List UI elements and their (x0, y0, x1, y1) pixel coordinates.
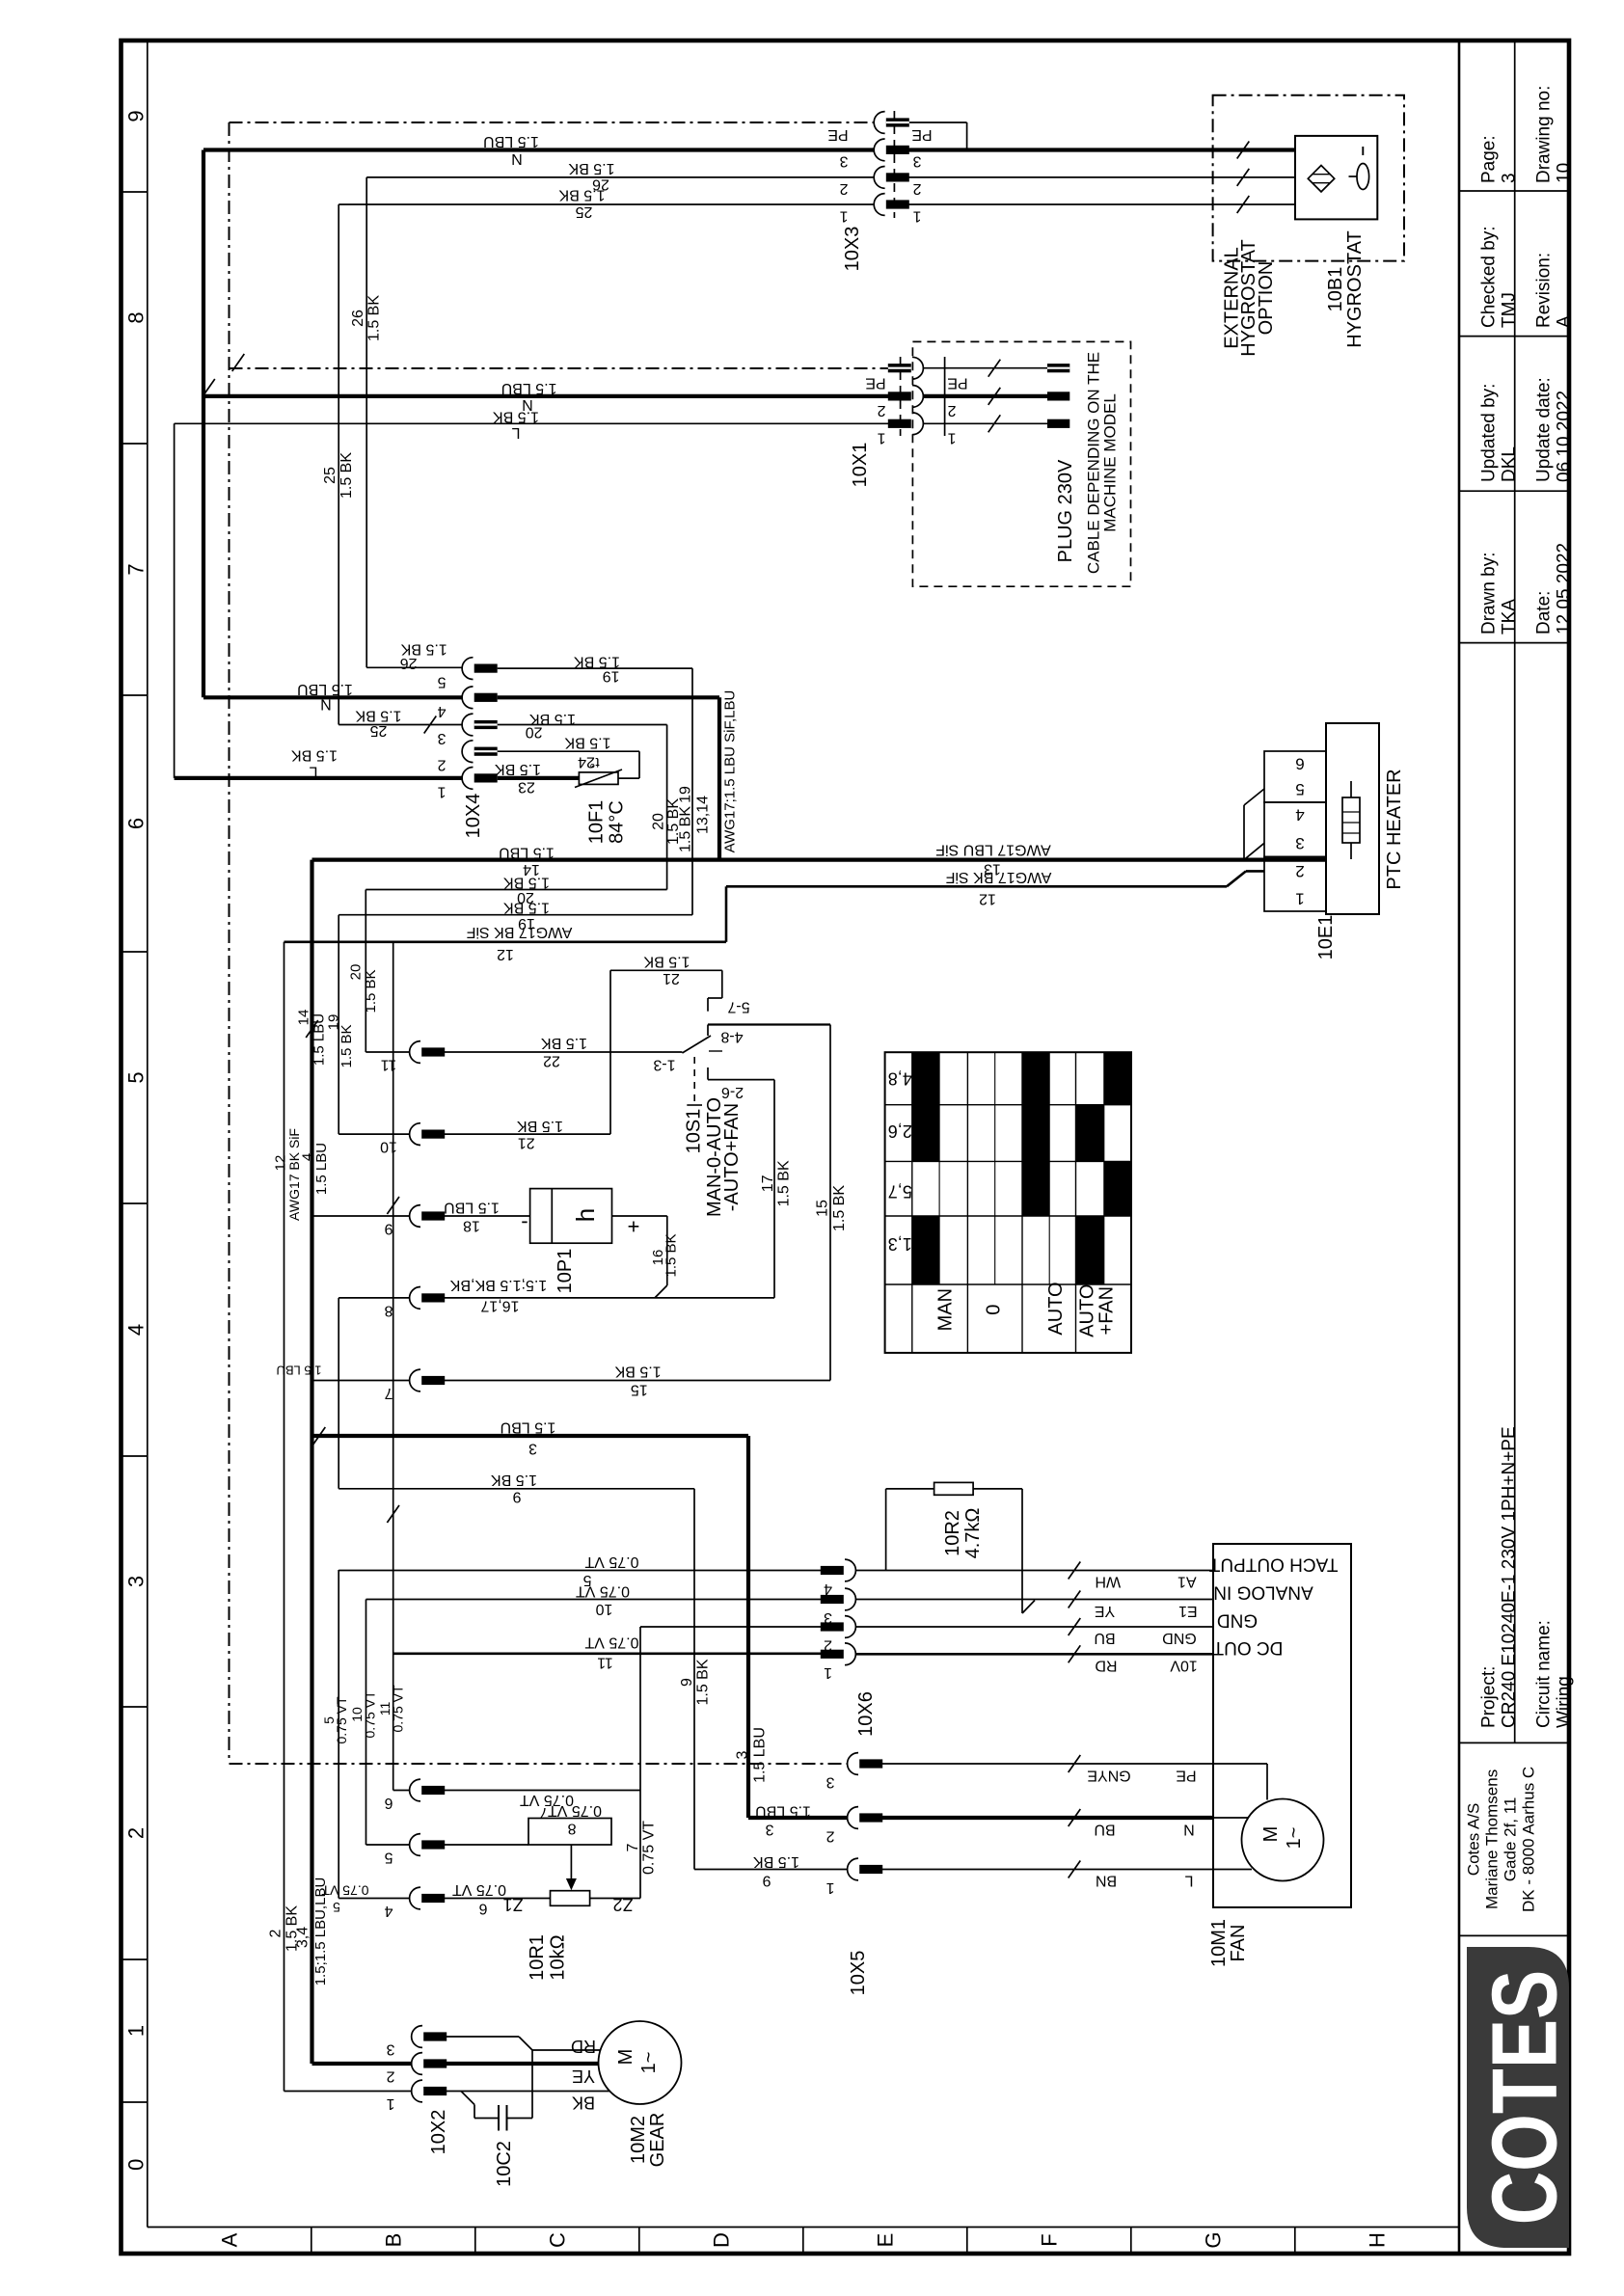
svg-text:26: 26 (400, 655, 418, 671)
svg-text:1.5 BK: 1.5 BK (541, 1035, 587, 1051)
svg-text:M: M (1260, 1826, 1282, 1843)
svg-text:Updated by:: Updated by: (1479, 384, 1500, 482)
svg-text:5: 5 (124, 1071, 149, 1083)
svg-text:1.5 BK: 1.5 BK (491, 1472, 537, 1488)
svg-text:10X5: 10X5 (848, 1951, 869, 1996)
svg-text:3: 3 (1295, 834, 1304, 852)
svg-text:M: M (615, 2049, 636, 2066)
svg-text:10: 10 (1555, 163, 1575, 183)
svg-text:5: 5 (384, 1850, 392, 1866)
svg-text:10X1: 10X1 (850, 443, 871, 488)
svg-text:6: 6 (384, 1795, 392, 1811)
svg-text:1.5 LBU: 1.5 LBU (311, 1013, 328, 1066)
svg-text:1: 1 (826, 1879, 834, 1896)
svg-text:23: 23 (518, 779, 535, 796)
svg-text:1~: 1~ (638, 2052, 660, 2074)
svg-text:G: G (1201, 2231, 1225, 2248)
svg-text:1.5 LBU: 1.5 LBU (755, 1803, 811, 1820)
svg-text:0.75 VT: 0.75 VT (576, 1583, 630, 1600)
svg-text:1.5 BK: 1.5 BK (503, 900, 550, 916)
svg-text:Z2: Z2 (612, 1895, 633, 1914)
svg-text:ANALOG IN: ANALOG IN (1213, 1582, 1313, 1603)
svg-text:6: 6 (478, 1901, 487, 1917)
svg-text:WH: WH (1095, 1574, 1121, 1590)
svg-text:0: 0 (984, 1305, 1005, 1315)
svg-text:PE: PE (827, 126, 848, 143)
svg-text:DKL: DKL (1500, 446, 1520, 482)
svg-text:1.5 BK: 1.5 BK (564, 735, 610, 751)
svg-text:1.5 BK: 1.5 BK (614, 1364, 661, 1380)
svg-text:5-7: 5-7 (727, 999, 749, 1015)
svg-text:TKA: TKA (1500, 599, 1520, 635)
svg-text:0: 0 (124, 2159, 149, 2171)
svg-text:2: 2 (877, 402, 885, 419)
svg-text:1: 1 (437, 783, 446, 799)
svg-text:PE: PE (1176, 1768, 1196, 1784)
svg-text:1.5 BK: 1.5 BK (338, 452, 355, 499)
svg-text:10M1: 10M1 (1208, 1919, 1230, 1967)
svg-text:Gade 2f, 11: Gade 2f, 11 (1502, 1797, 1520, 1882)
svg-text:HYGROSTAT: HYGROSTAT (1344, 230, 1366, 347)
svg-text:8: 8 (567, 1821, 576, 1837)
svg-text:4: 4 (824, 1580, 832, 1597)
svg-text:PE: PE (947, 375, 967, 392)
svg-text:10X4: 10X4 (463, 794, 484, 839)
svg-text:h: h (571, 1208, 600, 1222)
svg-text:L: L (309, 764, 317, 780)
svg-text:N: N (320, 696, 332, 713)
svg-text:7: 7 (124, 563, 149, 575)
svg-text:10: 10 (380, 1139, 397, 1155)
svg-text:AWG17 BK SiF: AWG17 BK SiF (466, 924, 572, 940)
svg-text:A: A (1555, 315, 1575, 328)
svg-text:6: 6 (1295, 755, 1304, 773)
svg-text:1.5 LBU: 1.5 LBU (499, 845, 555, 861)
svg-text:9: 9 (124, 110, 149, 122)
svg-text:10E1: 10E1 (1315, 915, 1337, 960)
svg-text:10X6: 10X6 (855, 1691, 877, 1737)
svg-text:4: 4 (437, 703, 446, 719)
svg-text:3: 3 (386, 2041, 394, 2058)
svg-text:21: 21 (518, 1135, 535, 1151)
svg-text:26: 26 (350, 310, 366, 327)
svg-text:5: 5 (333, 1900, 340, 1915)
svg-text:20: 20 (348, 964, 365, 981)
svg-text:1: 1 (824, 1664, 832, 1681)
svg-text:1.5;1.5 BK,BK: 1.5;1.5 BK,BK (449, 1277, 547, 1293)
svg-text:0.75 VT: 0.75 VT (363, 1690, 378, 1738)
svg-text:10F1: 10F1 (586, 800, 608, 845)
svg-text:3: 3 (735, 1750, 751, 1759)
svg-text:22: 22 (543, 1053, 560, 1069)
svg-text:10S1: 10S1 (683, 1109, 704, 1154)
svg-text:-: - (521, 1212, 528, 1236)
svg-text:10V: 10V (1170, 1658, 1198, 1674)
svg-text:15: 15 (815, 1200, 831, 1217)
svg-text:2: 2 (839, 180, 848, 197)
svg-text:CR240 E10240E-1 230V 1PH+N+PE: CR240 E10240E-1 230V 1PH+N+PE (1500, 1426, 1520, 1728)
svg-text:FAN: FAN (1228, 1925, 1249, 1962)
svg-text:12.05.2022: 12.05.2022 (1555, 543, 1575, 635)
svg-text:14: 14 (296, 1010, 312, 1026)
svg-text:+FAN: +FAN (1096, 1286, 1117, 1336)
svg-text:DK - 8000 Aarhus C: DK - 8000 Aarhus C (1520, 1767, 1538, 1912)
svg-text:10: 10 (596, 1601, 613, 1617)
svg-text:PTC HEATER: PTC HEATER (1384, 769, 1405, 889)
svg-text:2: 2 (268, 1929, 284, 1937)
svg-text:10R1: 10R1 (527, 1934, 548, 1981)
svg-text:1.5 LBU: 1.5 LBU (752, 1727, 769, 1783)
svg-text:E1: E1 (1178, 1603, 1198, 1619)
svg-text:15: 15 (631, 1382, 648, 1398)
svg-text:11: 11 (597, 1655, 613, 1671)
svg-text:7: 7 (625, 1843, 641, 1851)
svg-text:2: 2 (912, 180, 921, 197)
svg-text:1.5 BK: 1.5 BK (291, 747, 338, 764)
svg-text:1-3: 1-3 (653, 1057, 675, 1073)
svg-text:F: F (1037, 2233, 1061, 2246)
svg-text:1.5 BK: 1.5 BK (338, 1024, 355, 1067)
svg-text:AUTO: AUTO (1045, 1282, 1067, 1335)
svg-text:C: C (545, 2232, 569, 2248)
svg-text:5: 5 (1295, 780, 1304, 798)
svg-text:1: 1 (386, 2095, 394, 2112)
svg-text:TACH OUTPUT: TACH OUTPUT (1208, 1554, 1338, 1575)
svg-text:1,3: 1,3 (888, 1234, 912, 1254)
svg-text:25: 25 (322, 467, 338, 484)
svg-text:0.75 VT: 0.75 VT (334, 1696, 349, 1743)
svg-text:AWG17 BK SiF: AWG17 BK SiF (286, 1128, 302, 1221)
svg-text:84°C: 84°C (607, 800, 628, 844)
svg-text:10P1: 10P1 (555, 1249, 576, 1294)
svg-text:1: 1 (877, 430, 885, 446)
svg-text:Page:: Page: (1479, 135, 1500, 183)
svg-text:11: 11 (381, 1057, 397, 1073)
svg-text:3: 3 (765, 1822, 773, 1838)
svg-text:1.5 BK: 1.5 BK (363, 969, 379, 1013)
svg-text:MACHINE MODEL: MACHINE MODEL (1101, 393, 1120, 532)
svg-text:9: 9 (762, 1873, 771, 1889)
svg-text:COTES: COTES (1473, 1970, 1576, 2226)
svg-text:1.5 LBU: 1.5 LBU (297, 681, 353, 697)
svg-text:1: 1 (912, 208, 921, 225)
svg-text:1.5 LBU: 1.5 LBU (277, 1364, 322, 1378)
svg-text:6: 6 (124, 818, 149, 829)
svg-text:2: 2 (437, 757, 446, 773)
svg-text:3: 3 (1500, 173, 1520, 183)
svg-text:Mariane Thomsens: Mariane Thomsens (1483, 1769, 1502, 1909)
svg-text:1.5 BK: 1.5 BK (355, 708, 401, 724)
svg-text:AWG17 LBU SiF: AWG17 LBU SiF (935, 842, 1051, 858)
svg-text:2: 2 (1295, 862, 1304, 880)
svg-text:Date:: Date: (1534, 591, 1555, 635)
svg-text:Update date:: Update date: (1534, 377, 1555, 482)
svg-text:1.5 BK: 1.5 BK (831, 1185, 848, 1231)
svg-text:10X2: 10X2 (428, 2110, 449, 2155)
svg-text:1.5 LBU: 1.5 LBU (483, 133, 539, 149)
svg-text:t°: t° (589, 754, 599, 770)
svg-text:9: 9 (512, 1489, 521, 1505)
svg-text:AWG17 BK SiF: AWG17 BK SiF (945, 869, 1051, 885)
svg-text:Checked by:: Checked by: (1479, 226, 1500, 328)
svg-text:20: 20 (526, 724, 543, 741)
svg-text:12: 12 (979, 891, 996, 907)
svg-text:A: A (217, 2232, 241, 2247)
svg-text:A1: A1 (1177, 1574, 1197, 1590)
svg-text:0.75 VT: 0.75 VT (391, 1685, 406, 1732)
svg-text:0.75 VT: 0.75 VT (548, 1802, 602, 1819)
svg-text:1.5 BK: 1.5 BK (568, 160, 614, 176)
svg-text:GND: GND (1217, 1610, 1258, 1631)
svg-text:1.5 BK: 1.5 BK (400, 640, 447, 657)
svg-text:1.5 BK: 1.5 BK (678, 806, 694, 852)
svg-text:5: 5 (437, 674, 446, 690)
svg-text:L: L (1184, 1873, 1193, 1889)
svg-text:7: 7 (384, 1385, 392, 1401)
svg-text:5,7: 5,7 (888, 1182, 912, 1202)
svg-text:12: 12 (497, 946, 514, 962)
svg-text:RD: RD (571, 2037, 596, 2056)
svg-text:PE: PE (911, 126, 932, 143)
svg-text:17: 17 (760, 1175, 776, 1192)
svg-text:Z1: Z1 (502, 1895, 523, 1914)
svg-text:3: 3 (124, 1576, 149, 1587)
svg-text:MAN: MAN (934, 1288, 956, 1331)
svg-text:H: H (1365, 2232, 1389, 2248)
svg-text:1.5 BK: 1.5 BK (776, 1160, 793, 1206)
svg-text:4,8: 4,8 (888, 1068, 912, 1088)
svg-text:Cotes A/S: Cotes A/S (1465, 1803, 1483, 1877)
svg-text:06.10.2022: 06.10.2022 (1555, 391, 1575, 482)
svg-text:4: 4 (1295, 806, 1304, 824)
svg-text:3: 3 (826, 1774, 834, 1791)
svg-text:2,6: 2,6 (888, 1121, 912, 1141)
svg-text:1.5 BK: 1.5 BK (493, 408, 539, 424)
svg-text:2: 2 (826, 1828, 834, 1845)
svg-text:1.5 BK: 1.5 BK (574, 654, 620, 670)
svg-text:19: 19 (678, 786, 694, 803)
svg-text:1.5 LBU: 1.5 LBU (501, 1419, 556, 1436)
svg-text:GNYE: GNYE (1087, 1768, 1130, 1784)
svg-text:1: 1 (124, 2025, 149, 2037)
svg-text:0.75 VT: 0.75 VT (584, 1634, 638, 1651)
svg-text:13,14: 13,14 (695, 796, 712, 834)
svg-text:1.5 BK: 1.5 BK (366, 295, 383, 341)
svg-text:GND: GND (1162, 1630, 1197, 1646)
svg-text:AWG17;1.5 LBU SiF,LBU: AWG17;1.5 LBU SiF,LBU (722, 690, 739, 853)
svg-text:N: N (511, 150, 523, 167)
svg-text:DC OUT: DC OUT (1212, 1637, 1283, 1658)
svg-text:10C2: 10C2 (494, 2141, 515, 2187)
svg-text:1.5 LBU: 1.5 LBU (313, 1143, 330, 1195)
svg-text:4: 4 (124, 1324, 149, 1336)
svg-text:10R2: 10R2 (942, 1510, 963, 1556)
svg-text:21: 21 (663, 970, 680, 986)
svg-text:TMJ: TMJ (1500, 292, 1520, 328)
svg-text:YE: YE (572, 2066, 595, 2086)
svg-text:0.75 VT: 0.75 VT (452, 1881, 506, 1898)
svg-text:2: 2 (124, 1827, 149, 1839)
svg-text:1.5 BK: 1.5 BK (495, 761, 541, 777)
svg-text:8: 8 (384, 1302, 392, 1318)
svg-text:BU: BU (1094, 1822, 1115, 1838)
svg-text:20: 20 (651, 813, 667, 830)
svg-text:10kΩ: 10kΩ (548, 1934, 569, 1980)
svg-text:Revision:: Revision: (1534, 253, 1555, 328)
svg-text:1.5 LBU: 1.5 LBU (444, 1200, 500, 1216)
svg-text:N: N (1183, 1822, 1195, 1838)
svg-text:3: 3 (437, 730, 446, 746)
svg-text:BN: BN (1096, 1873, 1117, 1889)
svg-text:18: 18 (463, 1218, 480, 1234)
svg-text:10B1: 10B1 (1325, 267, 1346, 312)
svg-text:0.75 VT: 0.75 VT (641, 1821, 658, 1875)
svg-text:0.75 VT: 0.75 VT (584, 1553, 638, 1570)
svg-text:B: B (381, 2233, 405, 2248)
svg-text:E: E (873, 2233, 897, 2248)
svg-text:8: 8 (124, 311, 149, 323)
svg-text:OPTION: OPTION (1256, 261, 1277, 336)
svg-text:2: 2 (947, 402, 956, 419)
svg-text:BK: BK (572, 2093, 595, 2113)
svg-text:9: 9 (384, 1221, 392, 1237)
svg-text:RD: RD (1095, 1658, 1117, 1674)
svg-text:Drawn by:: Drawn by: (1479, 552, 1500, 635)
svg-text:1.5 BK: 1.5 BK (663, 1233, 680, 1277)
svg-text:10M2: 10M2 (628, 2116, 649, 2164)
svg-text:1: 1 (1295, 890, 1304, 908)
svg-text:25: 25 (576, 203, 593, 220)
svg-text:3: 3 (912, 153, 921, 170)
svg-text:10X3: 10X3 (842, 227, 863, 272)
svg-text:1.5 BK: 1.5 BK (643, 954, 690, 970)
svg-text:PE: PE (865, 375, 885, 392)
svg-text:9: 9 (679, 1678, 695, 1687)
svg-text:Wiring: Wiring (1555, 1676, 1575, 1728)
svg-text:GEAR: GEAR (647, 2113, 668, 2168)
svg-text:4: 4 (384, 1903, 392, 1919)
svg-text:1.5 BK: 1.5 BK (558, 187, 605, 203)
svg-text:4.7kΩ: 4.7kΩ (962, 1508, 984, 1559)
svg-text:3: 3 (839, 153, 848, 170)
svg-text:1.5 BK: 1.5 BK (695, 1659, 712, 1705)
svg-text:2: 2 (386, 2068, 394, 2085)
svg-text:25: 25 (370, 722, 388, 739)
svg-text:Drawing no:: Drawing no: (1534, 86, 1555, 183)
svg-text:1.5 BK: 1.5 BK (284, 1905, 301, 1952)
svg-text:D: D (709, 2232, 733, 2248)
svg-text:1: 1 (947, 430, 956, 446)
svg-text:4-8: 4-8 (720, 1029, 743, 1045)
svg-text:+: + (628, 1215, 640, 1239)
svg-text:AUTO: AUTO (1077, 1284, 1098, 1337)
svg-text:3: 3 (528, 1441, 537, 1457)
svg-text:1~: 1~ (1284, 1827, 1305, 1850)
svg-text:-AUTO+FAN: -AUTO+FAN (721, 1103, 743, 1211)
svg-text:YE: YE (1095, 1603, 1115, 1619)
svg-text:1.5 BK: 1.5 BK (503, 875, 550, 891)
svg-text:1.5 BK: 1.5 BK (753, 1853, 799, 1870)
svg-text:1: 1 (839, 208, 848, 225)
svg-text:PLUG 230V: PLUG 230V (1055, 459, 1076, 562)
svg-text:Project:: Project: (1479, 1666, 1500, 1728)
svg-text:1.5 LBU: 1.5 LBU (501, 380, 557, 396)
svg-text:19: 19 (603, 668, 620, 685)
svg-text:BU: BU (1094, 1630, 1115, 1646)
svg-text:1.5 BK: 1.5 BK (517, 1118, 563, 1134)
svg-text:16,17: 16,17 (480, 1298, 519, 1314)
svg-text:L: L (511, 424, 520, 441)
svg-text:0.75 VT: 0.75 VT (321, 1883, 368, 1899)
svg-text:Circuit name:: Circuit name: (1534, 1620, 1555, 1728)
